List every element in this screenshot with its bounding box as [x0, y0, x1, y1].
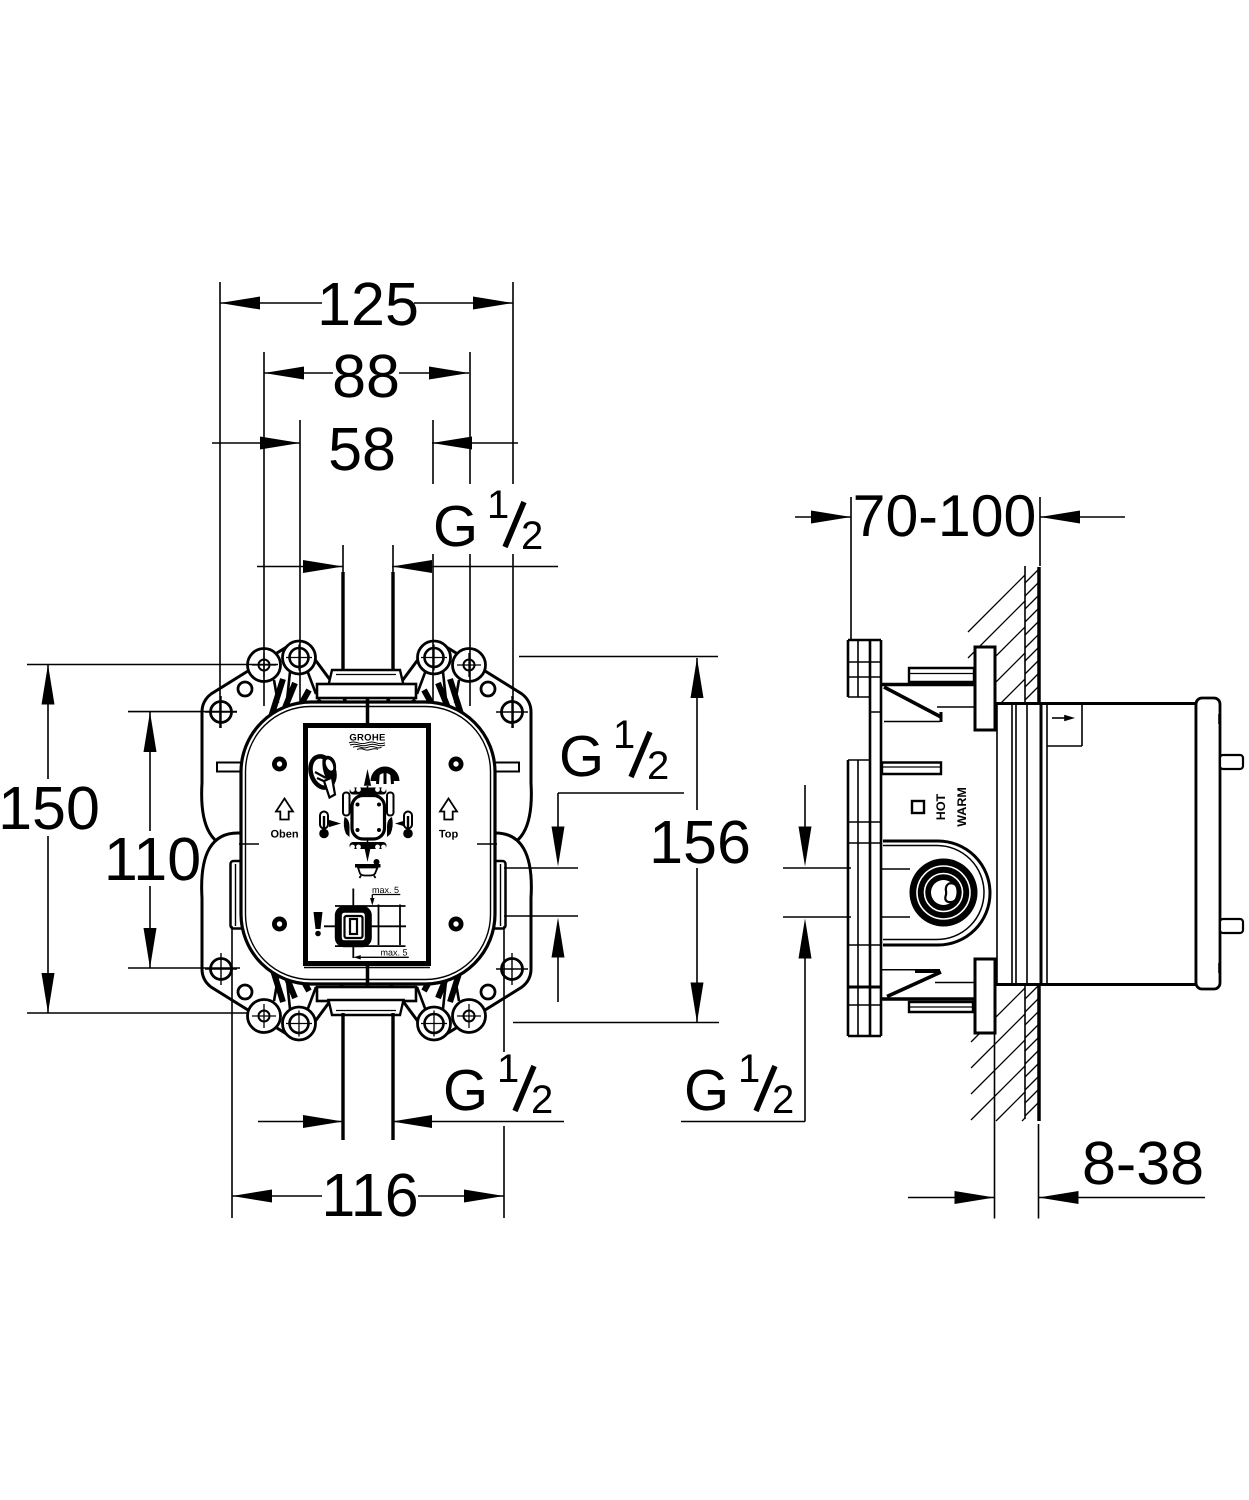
svg-text:2: 2: [531, 1078, 553, 1122]
svg-text:max. 5: max. 5: [372, 885, 399, 895]
svg-text:116: 116: [321, 1161, 418, 1229]
svg-text:1: 1: [613, 713, 635, 757]
svg-text:1: 1: [487, 483, 509, 527]
svg-text:G: G: [684, 1058, 729, 1123]
svg-text:max. 5: max. 5: [381, 948, 408, 958]
svg-text:WARM: WARM: [955, 787, 969, 827]
svg-text:1: 1: [738, 1047, 760, 1091]
svg-text:150: 150: [0, 774, 100, 842]
svg-text:70-100: 70-100: [853, 483, 1037, 549]
svg-text:88: 88: [332, 342, 400, 410]
svg-text:1: 1: [497, 1047, 519, 1091]
svg-text:156: 156: [649, 808, 751, 876]
svg-text:125: 125: [317, 270, 419, 338]
svg-text:8-38: 8-38: [1082, 1129, 1204, 1197]
svg-text:2: 2: [772, 1078, 794, 1122]
svg-text:2: 2: [647, 744, 669, 788]
svg-text:G: G: [559, 724, 604, 789]
svg-text:G: G: [443, 1058, 488, 1123]
svg-text:2: 2: [521, 514, 543, 558]
svg-text:Oben: Oben: [270, 829, 298, 841]
svg-text:Top: Top: [439, 829, 459, 841]
svg-text:110: 110: [104, 825, 201, 893]
svg-text:58: 58: [328, 415, 396, 483]
svg-text:HOT: HOT: [934, 793, 948, 820]
svg-text:G: G: [433, 494, 478, 559]
